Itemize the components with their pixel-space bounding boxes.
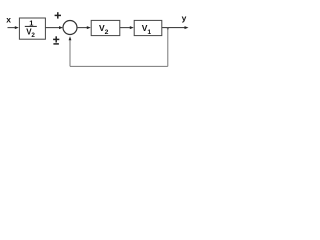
block V2	[91, 20, 120, 35]
svg-text:1: 1	[147, 29, 151, 36]
svg-text:2: 2	[31, 32, 35, 39]
junction dot on output wire	[167, 28, 169, 31]
plus sign (x input)	[55, 12, 61, 18]
feedback wire: down from output junction	[167, 28, 169, 67]
block 1/V2	[19, 18, 45, 39]
wire summing junction to block V2	[77, 26, 91, 29]
plus-minus sign (feedback input)	[53, 36, 59, 44]
output wire to y	[162, 26, 189, 29]
svg-text:y: y	[182, 13, 187, 23]
feedback wire: bottom horizontal	[70, 65, 168, 67]
feedback wire: up into summing junction	[69, 40, 71, 66]
wire input arrow into block 1/V2	[8, 26, 19, 29]
feedback arrowhead into summing junction	[69, 36, 72, 40]
wire block V2 to block V1	[120, 26, 134, 29]
summing junction circle	[63, 21, 77, 35]
block V1	[134, 20, 162, 35]
svg-text:2: 2	[105, 29, 109, 36]
svg-text:x: x	[6, 15, 11, 25]
wire block1 to summing junction	[46, 26, 64, 29]
